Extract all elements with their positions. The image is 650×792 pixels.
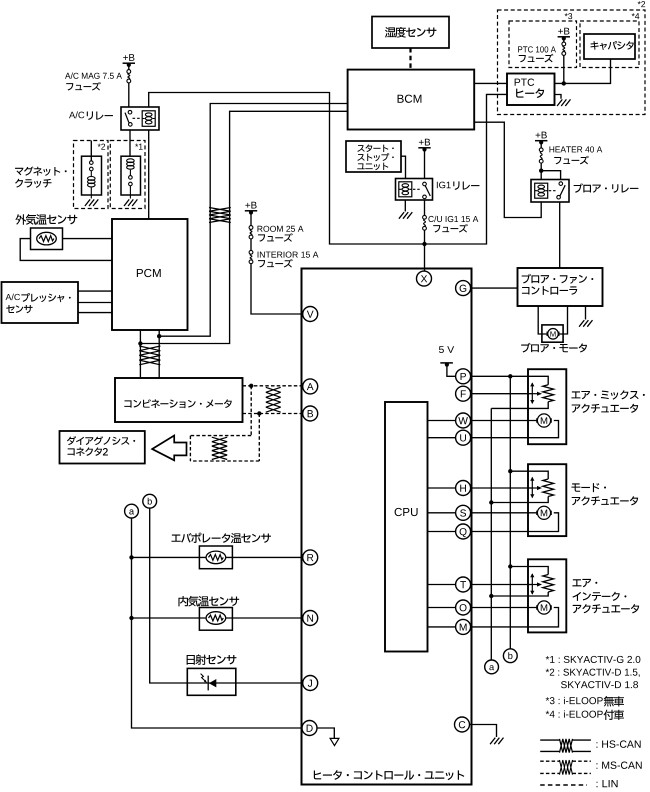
wire intake pot gnd to bus a — [491, 595, 528, 597]
node junction intake gnd — [489, 594, 493, 598]
box A/C pressure sensor — [2, 282, 79, 323]
legend HS-CAN twist — [560, 739, 573, 753]
wire b bus down to J — [150, 508, 303, 683]
pin D — [302, 721, 317, 736]
mode actuator pot top wire — [528, 471, 548, 479]
wire diag pair lower (dashed) — [190, 460, 259, 462]
node junction A branch — [249, 384, 253, 388]
wire CPU to pin H — [428, 487, 456, 489]
power 5V bar — [440, 362, 453, 364]
clutch *2 coil — [88, 177, 96, 181]
label BCM — [398, 95, 404, 103]
thermistor evaporator — [206, 551, 226, 564]
pin C — [455, 717, 470, 732]
wire air intake actuator wiper in — [528, 584, 532, 586]
wire PCM to meter right — [158, 330, 160, 378]
pin P — [456, 369, 471, 384]
box air intake actuator — [528, 559, 566, 632]
pin V — [303, 307, 318, 322]
power +B (A/C MAG fuse) — [123, 55, 128, 60]
node junction P 5V — [508, 374, 512, 378]
wire air mix actuator wiper in — [528, 393, 532, 395]
node junction PTC fuse — [562, 81, 566, 85]
label *1 — [135, 144, 138, 147]
label cabin temp sensor — [178, 596, 188, 606]
label PTC heater — [515, 79, 521, 86]
label blower relay — [574, 183, 583, 193]
wire IG1 node to pin X — [424, 244, 426, 271]
box humidity sensor — [372, 17, 449, 49]
label *4 — [632, 13, 635, 16]
mode actuator pot bottom wire — [528, 497, 548, 503]
box heater control unit — [302, 269, 472, 785]
wire mode actuator wiper in — [528, 487, 532, 489]
label air mix actuator — [571, 391, 580, 398]
box capacitor *4 (dashed) — [580, 21, 639, 68]
ground PTC heater — [557, 99, 570, 106]
node junction a-cabin — [129, 616, 133, 620]
relay blower box — [531, 180, 569, 203]
wire ambient sensor to PCM (upper) — [63, 238, 113, 240]
wire pin U to air mix motor loop — [470, 437, 529, 439]
wire pin S to mode motor — [470, 512, 548, 514]
wire ROOM to INTERIOR fuse — [250, 239, 252, 251]
wire A branch down (dashed) — [250, 386, 252, 436]
wire pin P to air mix pot — [470, 375, 529, 377]
wire CPU to pin S — [428, 512, 456, 514]
clutch *1 coil — [127, 159, 135, 163]
wire pin F to air mix wiper — [470, 393, 529, 395]
motor air intake actuator — [537, 605, 551, 609]
wire CPU to pin Q — [428, 531, 456, 533]
wire pressure sensor sig2 — [78, 302, 112, 304]
label heater control unit — [314, 770, 321, 779]
label capacitor — [591, 41, 599, 50]
box combination meter — [115, 378, 243, 422]
label 5 V — [439, 346, 444, 353]
wire pin D internal — [317, 728, 334, 738]
motor mode actuator — [537, 511, 551, 515]
box mode actuator — [528, 464, 566, 536]
wire bus b to intake pot — [510, 566, 528, 568]
relay blower coil — [535, 183, 548, 198]
label magnet clutch — [15, 168, 23, 175]
wire B branch down (dashed) — [258, 414, 260, 462]
wire PCM to meter left — [139, 330, 141, 378]
box PCM — [112, 219, 188, 330]
relay IG1 contact dash — [413, 188, 420, 190]
node junction mode gnd — [489, 500, 493, 504]
label A/C relay — [69, 112, 75, 118]
node junction B branch — [257, 411, 261, 415]
power +B (PTC fuse) — [558, 29, 563, 34]
pin M — [456, 619, 471, 634]
wire capacitor to PTC heater — [555, 59, 611, 83]
wire PTC fuse to node — [563, 55, 565, 83]
legend MS-CAN twist — [560, 760, 573, 775]
relay A/C relay box — [121, 107, 159, 130]
clutch *1 contacts — [129, 176, 133, 180]
label start stop unit — [357, 145, 364, 152]
pin T — [456, 577, 471, 592]
wire INTERIOR fuse to pin V — [251, 264, 303, 314]
label PCM — [137, 269, 143, 277]
wire CPU to pin W — [428, 420, 456, 422]
ground clutch *1 — [124, 199, 137, 206]
wire a bus down to D — [132, 518, 303, 728]
fuse A/C MAG 7.5 A — [127, 70, 131, 74]
pin W — [456, 413, 471, 428]
pin J — [303, 676, 318, 691]
box air mix actuator — [528, 369, 566, 444]
wire +B to fuse — [128, 65, 130, 70]
box blower motor — [542, 325, 563, 342]
pin R — [303, 550, 318, 565]
ground pin C — [490, 738, 503, 745]
box evaporator temp sensor — [199, 546, 232, 569]
wire clutch *2 lead — [90, 141, 92, 161]
pin F — [456, 386, 471, 401]
wire mode actuator motor loop — [528, 513, 559, 532]
label ROOM 25 A — [258, 226, 263, 232]
resistor air intake actuator pot — [543, 575, 554, 593]
clutch coil *2 box — [82, 156, 102, 195]
legend HS-CAN lines — [540, 739, 559, 741]
label *2 — [98, 144, 101, 147]
air mix actuator pot wiper — [531, 383, 533, 403]
node junction PCM left — [138, 341, 142, 345]
box cabin temp sensor — [199, 608, 232, 631]
fuse ROOM 25 A — [249, 226, 253, 230]
label blower motor — [521, 343, 531, 353]
label HEATER 40 A fuse — [549, 146, 554, 152]
box diagnosis connector 2 — [60, 431, 145, 464]
power +B (IG1 relay) — [419, 140, 424, 145]
power +B (HEATER fuse) — [536, 133, 541, 138]
label *3 — [565, 13, 568, 16]
note *2 — [546, 669, 549, 673]
note *3 — [546, 697, 550, 701]
relay blower contact dash — [549, 190, 556, 192]
label C/U IG1 15 A fuse — [428, 216, 433, 222]
wire A/C relay switch to magnet clutch *1 — [129, 130, 131, 156]
wire pin O to intake motor — [470, 607, 548, 609]
fuse INTERIOR 15 A — [249, 250, 253, 254]
wire pin T to intake wiper — [470, 584, 529, 586]
wire diag pair upper (dashed) — [190, 435, 251, 437]
clutch coil *1 box — [121, 156, 141, 195]
wire evap sensor to pin R — [132, 556, 303, 558]
node a (right) — [485, 660, 499, 674]
box PTC group *2 (dashed) — [498, 10, 646, 115]
arrow to diagnosis connector — [152, 436, 186, 461]
note *2b — [561, 681, 567, 688]
label CPU — [395, 508, 402, 516]
twist HS-CAN BCM-PCM — [209, 208, 231, 223]
legend LIN line — [540, 784, 587, 786]
label INTERIOR 15 A — [257, 252, 260, 258]
thermistor ambient — [37, 232, 57, 245]
fuse C/U IG1 15 A — [423, 215, 427, 219]
legend MS-CAN text — [595, 763, 598, 768]
motor air mix actuator — [537, 418, 551, 422]
wire CAN-L BCM to PCM — [140, 111, 347, 343]
resistor air mix actuator pot — [543, 385, 554, 402]
wire PTC heater ground lead — [555, 95, 562, 99]
relay blower switch — [559, 182, 563, 186]
label IG1 relay — [436, 182, 439, 188]
wire +B to HEATER fuse — [540, 142, 542, 148]
wire controller to motor right — [558, 306, 567, 334]
twist MS-CAN diag — [208, 437, 231, 459]
note *4 — [546, 711, 550, 715]
box solar sensor — [187, 668, 236, 695]
label air intake actuator — [572, 579, 581, 586]
air intake actuator pot bottom wire — [528, 592, 548, 596]
wire node to blower relay switch — [541, 171, 560, 180]
note *1 — [546, 656, 550, 660]
wire A/C relay coil bottom to PCM — [148, 130, 150, 219]
wire MS-CAN A (dashed) — [243, 385, 303, 387]
power +B (ROOM fuse) — [245, 203, 250, 208]
box PTC heater — [507, 74, 555, 106]
legend MS-CAN lines — [540, 760, 559, 762]
label ambient temp sensor — [15, 214, 26, 225]
wire diag pair end (dashed) — [189, 436, 191, 461]
wire IG1 coil to ground — [404, 200, 406, 212]
box blower fan controller — [518, 268, 603, 306]
label combination meter — [124, 400, 131, 407]
ground IG1 relay — [399, 212, 412, 219]
legend HS-CAN text — [595, 742, 598, 747]
clutch *2 contacts — [90, 161, 94, 165]
wire CPU to pin M — [428, 626, 456, 628]
wire pressure sensor sig1 — [78, 290, 112, 292]
motor blower M — [547, 332, 559, 336]
twist HS-CAN PCM-meter — [139, 346, 160, 365]
label humidity sensor — [385, 27, 396, 38]
wire A/C relay coil top to IG1 node — [149, 93, 507, 245]
label diagnosis connector 2 — [67, 436, 76, 445]
air mix actuator pot top wire — [528, 376, 548, 385]
pin A — [303, 379, 318, 394]
relay A/C contact dash — [133, 117, 142, 119]
node junction a-evap — [129, 555, 133, 559]
label evaporator temp sensor — [171, 535, 180, 542]
fuse HEATER 40 A — [539, 148, 543, 152]
pin U — [456, 430, 471, 445]
resistor mode actuator pot — [543, 479, 554, 497]
box magnet clutch *2 variant (dashed) — [74, 141, 109, 209]
pin H — [456, 481, 471, 496]
air mix actuator pot bottom wire — [528, 402, 548, 409]
relay A/C switch — [128, 110, 132, 114]
box ambient temp sensor — [31, 228, 63, 250]
wire HEATER fuse to node — [540, 163, 542, 179]
wire air mix pot gnd to bus a — [491, 407, 528, 409]
wire pin G to controller — [472, 287, 518, 289]
node junction PCM right — [157, 334, 161, 338]
box magnet clutch *1 variant (dashed) — [110, 141, 145, 209]
pin S — [456, 505, 471, 520]
wire blower relay switch to controller — [559, 202, 561, 268]
arrow D continuation — [330, 738, 339, 745]
wire air mix actuator motor loop — [528, 421, 559, 438]
pin N — [303, 611, 318, 626]
twist MS-CAN A/B — [263, 387, 284, 412]
wire pin C to ground — [470, 725, 497, 738]
box start stop unit — [346, 141, 401, 172]
relay IG1 switch — [423, 182, 427, 186]
box PTC fuse *3 (dashed) — [509, 21, 577, 68]
relay A/C coil — [142, 111, 155, 127]
wire IG1 switch to fuse — [424, 200, 426, 215]
wire +B to PTC fuse — [563, 39, 565, 43]
wire LIN humidity-BCM (dashed) — [409, 48, 411, 70]
node b (right) — [503, 649, 517, 663]
pin X — [417, 271, 432, 286]
pin O — [456, 600, 471, 615]
wire pin M to intake motor loop — [470, 626, 529, 628]
node junction IG1 — [422, 242, 426, 246]
label solar sensor — [187, 655, 195, 665]
wire CAN-H BCM to PCM — [159, 104, 347, 337]
node b (left) — [143, 494, 157, 508]
label *2 group — [638, 1, 641, 4]
wire CPU to pin T — [428, 584, 456, 586]
node junction intake 5V — [508, 564, 512, 568]
wire controller ground lead — [585, 306, 587, 320]
wire +B to ROOM fuse — [250, 213, 252, 226]
wire pin Q to mode motor loop — [470, 531, 529, 533]
node junction blower relay — [539, 169, 543, 173]
ground clutch *2 — [85, 199, 98, 206]
label mode actuator — [571, 483, 580, 491]
wire controller to motor left — [538, 306, 547, 334]
relay IG1 coil — [399, 182, 412, 197]
air intake actuator pot top wire — [528, 567, 548, 575]
wire pressure sensor sig3 — [78, 312, 112, 314]
node a (left) — [125, 504, 139, 518]
pin Q — [456, 524, 471, 539]
box capacitor — [584, 34, 635, 59]
label blower fan controller — [522, 274, 531, 284]
mode actuator pot wiper — [531, 478, 533, 498]
fuse PTC 100 A — [562, 42, 566, 46]
wire bus b to mode pot — [510, 470, 528, 472]
wire cabin sensor to pin N — [132, 617, 303, 619]
wire pin W to air mix motor — [470, 420, 548, 422]
wire +B to IG1 relay switch — [424, 150, 426, 179]
wire start stop unit to IG1 relay coil — [401, 156, 406, 178]
wire 5V to pin P — [447, 365, 456, 377]
wire CPU to pin O — [428, 607, 456, 609]
wire blower relay coil to BCM — [474, 122, 541, 217]
label PTC 100 A fuse — [518, 46, 522, 52]
wire CPU to pin U — [428, 437, 456, 439]
legend LIN text — [596, 782, 597, 787]
wire C/U fuse to IG1 node — [424, 230, 426, 244]
wire pin H to mode wiper — [470, 487, 529, 489]
box CPU — [385, 402, 428, 652]
relay IG1 box — [396, 179, 433, 201]
photodiode solar sensor — [209, 679, 216, 687]
label A/C pressure sensor — [6, 294, 12, 300]
wire gnd bus a (right) — [490, 408, 492, 660]
wire mode pot gnd to bus a — [491, 502, 528, 504]
wire BCM to PTC heater — [474, 82, 507, 84]
box BCM — [348, 70, 475, 130]
wire fuse to A/C relay — [128, 83, 130, 107]
wire air intake actuator motor loop — [528, 608, 559, 627]
label A/C MAG 7.5 A fuse — [65, 73, 71, 79]
pin B — [303, 406, 318, 421]
pin G — [456, 281, 471, 296]
node junction mode 5V — [508, 469, 512, 473]
air intake actuator pot wiper — [531, 574, 533, 594]
thermistor cabin — [206, 612, 226, 625]
ground blower controller — [579, 320, 592, 327]
wire MS-CAN B (dashed) — [243, 413, 303, 415]
wire 5V bus b (right) — [509, 376, 511, 649]
wire ambient sensor to PCM (lower) — [20, 239, 112, 261]
